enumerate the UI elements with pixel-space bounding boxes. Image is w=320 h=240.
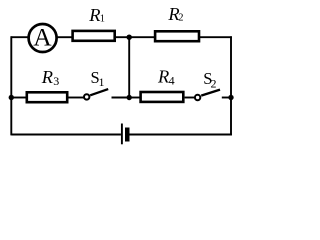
wire bottom left to battery <box>11 134 121 136</box>
wire middle vertical <box>128 37 130 97</box>
wire left vertical rail <box>10 36 12 135</box>
wire middle node to R4 <box>129 97 141 99</box>
ammeter A1 <box>29 23 57 52</box>
svg-text:3: 3 <box>53 74 59 88</box>
wire top-left horizontal from left rail to ammeter <box>11 36 29 38</box>
svg-text:R: R <box>88 5 100 25</box>
battery cell short thick plate <box>125 128 130 142</box>
wire left rail to R3 <box>11 97 26 99</box>
resistor R2 <box>155 31 199 41</box>
node junction dot top middle <box>127 35 132 40</box>
wire battery to bottom right <box>130 134 232 136</box>
wire R3 to switch S1 <box>68 97 84 99</box>
node junction dot middle row2 <box>127 95 132 100</box>
node junction dot right rail <box>228 95 233 100</box>
switch S2 <box>195 90 220 101</box>
wire right vertical rail <box>230 36 232 135</box>
label S2 <box>203 69 216 91</box>
svg-text:R: R <box>41 67 53 87</box>
wire R2 to right rail <box>200 36 232 38</box>
svg-text:2: 2 <box>211 76 217 90</box>
wire ammeter to R1 <box>57 36 72 38</box>
label R4 <box>157 67 175 88</box>
svg-text:R: R <box>157 67 169 87</box>
resistor R1 <box>73 31 115 41</box>
svg-text:A: A <box>33 23 52 52</box>
svg-text:1: 1 <box>100 13 105 24</box>
label S1 <box>91 68 105 89</box>
label R1 <box>88 5 105 25</box>
label R2 <box>167 4 183 24</box>
resistor R4 <box>141 92 184 102</box>
wire R1 to R2 through node <box>116 36 155 38</box>
battery cell long plate <box>121 124 123 145</box>
svg-text:2: 2 <box>178 13 183 24</box>
wire S1 to middle node <box>112 97 130 99</box>
switch S1 <box>84 89 108 100</box>
node junction dot left rail <box>9 95 14 100</box>
label R3 <box>41 67 59 88</box>
wire R4 to switch S2 <box>185 97 195 99</box>
svg-text:1: 1 <box>99 75 105 89</box>
svg-text:4: 4 <box>169 73 175 87</box>
wire S2 to right node <box>222 97 231 99</box>
resistor R3 <box>27 92 67 102</box>
